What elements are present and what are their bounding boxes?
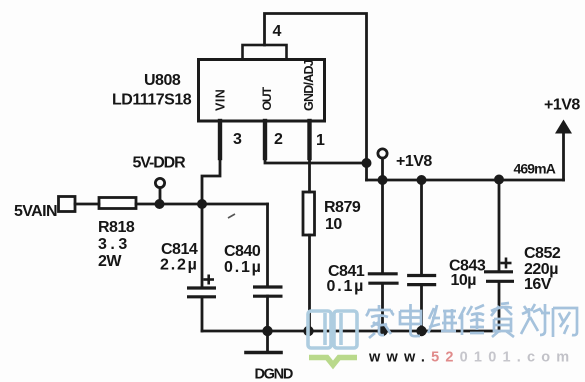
junction node +1V8 terminal — [378, 175, 388, 185]
svg-text:DGND: DGND — [255, 367, 293, 382]
svg-text:10: 10 — [325, 216, 342, 233]
junction node C852 top — [494, 175, 504, 185]
arrow +1V8 output — [555, 120, 572, 134]
junction node DGND — [262, 326, 272, 336]
capacitor C841 plates — [368, 274, 399, 283]
svg-text:5VAIN: 5VAIN — [14, 203, 57, 220]
junction node C814/pin3 — [197, 199, 207, 209]
wire C840 bottom stem — [266, 296, 269, 331]
wire DGND stem — [266, 331, 269, 352]
pin stub 2 — [263, 121, 267, 158]
wire pin4 tab loop — [265, 14, 367, 164]
wire terminal stem — [159, 188, 162, 204]
polarity plus C814 — [204, 275, 215, 285]
wire +1V8 terminal stem — [381, 158, 384, 180]
stray scan mark — [228, 214, 235, 218]
svg-text:C814: C814 — [161, 241, 198, 258]
terminal +1V8 — [378, 149, 387, 158]
svg-text:10µ: 10µ — [451, 272, 477, 289]
char dian — [400, 304, 421, 336]
junction node OUT/tab — [362, 158, 372, 168]
svg-text:C840: C840 — [224, 243, 261, 260]
connector J 5VAIN — [59, 197, 76, 212]
junction node C841 bottom — [377, 326, 387, 336]
wire +1V8 rail — [367, 179, 564, 182]
wire bottom ground rail — [202, 330, 499, 333]
capacitor C852 plates — [484, 272, 514, 282]
char wei — [428, 305, 457, 333]
watermark hanzi strokes — [366, 303, 577, 338]
wire C841 bottom stem — [381, 285, 384, 332]
svg-text:+1V8: +1V8 — [544, 97, 580, 114]
svg-text:LD1117S18: LD1117S18 — [112, 92, 192, 109]
IC U808 body — [199, 60, 325, 122]
wire C841 top stem — [381, 180, 384, 273]
svg-text:2W: 2W — [98, 253, 122, 270]
svg-text:R818: R818 — [98, 219, 135, 236]
svg-text:16V: 16V — [524, 276, 552, 293]
svg-text:U808: U808 — [144, 72, 181, 89]
ground DGND bar — [246, 351, 281, 355]
svg-text:2.2µ: 2.2µ — [160, 257, 199, 274]
svg-text:C852: C852 — [524, 245, 561, 262]
svg-text:R879: R879 — [324, 199, 361, 216]
char zi — [491, 303, 514, 337]
svg-text:0.1µ: 0.1µ — [327, 278, 366, 295]
wire pin3 jog — [202, 121, 220, 204]
wire C814 top stem — [201, 204, 204, 288]
pin stub 1 — [307, 121, 311, 158]
wire C814 bottom stem — [201, 297, 204, 331]
wire C843 bottom stem — [420, 286, 423, 331]
wire pin4 net down to +1V8 rail — [365, 163, 368, 180]
IC pin4 tab — [243, 45, 287, 60]
wire 5V rail to C840 branch — [202, 203, 268, 206]
svg-text:www.520101.com: www.520101.com — [368, 350, 575, 366]
wire C852 top stem — [498, 180, 501, 271]
svg-text:3: 3 — [233, 131, 242, 148]
pin stub 3 — [218, 121, 222, 158]
svg-text:1: 1 — [316, 132, 325, 149]
junction node C843 top — [417, 175, 427, 185]
svg-text:+1V8: +1V8 — [396, 153, 432, 170]
terminal 5V-DDR — [155, 178, 164, 187]
wire pin1 to R879 — [308, 121, 311, 192]
svg-text:2: 2 — [274, 131, 283, 148]
watermark logo book — [308, 311, 357, 348]
wire C843 top stem — [420, 180, 423, 274]
capacitor C843 plates — [407, 276, 436, 285]
svg-text:4: 4 — [273, 23, 282, 40]
char jia — [366, 305, 394, 338]
junction node C843 bottom — [416, 326, 426, 336]
wire R879 bottom — [308, 235, 311, 331]
junction node 5V-DDR — [155, 199, 165, 209]
resistor R818 — [99, 198, 136, 209]
svg-text:GND/ADJ: GND/ADJ — [302, 59, 316, 111]
svg-text:469mA: 469mA — [514, 161, 556, 177]
wire J to R818 — [75, 203, 99, 206]
wire C852 bottom stem — [498, 283, 501, 332]
resistor R879 — [303, 192, 315, 235]
polarity plus C852 — [501, 258, 512, 269]
wire C840 top stem — [266, 204, 269, 287]
watermark logo swoosh — [309, 358, 357, 366]
junction node R879 bottom — [303, 326, 313, 336]
wire rail up to arrow — [562, 131, 565, 180]
char xiu — [459, 305, 484, 335]
svg-text:3.3: 3.3 — [98, 236, 131, 253]
wire R818 to 5V-DDR node — [136, 203, 202, 206]
char liao — [521, 304, 550, 335]
svg-text:VIN: VIN — [214, 89, 228, 111]
svg-text:OUT: OUT — [260, 86, 274, 110]
char wang — [553, 308, 577, 337]
capacitor C840 plates — [253, 287, 283, 296]
svg-text:5V-DDR: 5V-DDR — [133, 155, 187, 172]
svg-text:0.1µ: 0.1µ — [224, 259, 263, 276]
wire pin2 OUT down and right — [265, 121, 367, 163]
capacitor C814 plates — [187, 288, 216, 297]
